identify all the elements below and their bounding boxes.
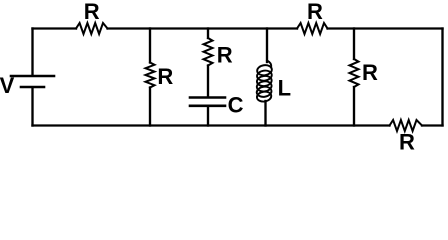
svg-text:R: R (307, 0, 323, 24)
resistor R5 (vertical, branch 5) (350, 59, 359, 87)
wire: top rail right segment (R2 to top-right corner) (328, 27, 443, 29)
wire: branch 4 lower stub (264, 101, 266, 126)
resistor R2 (top-right horizontal) (297, 23, 328, 34)
svg-text:R: R (157, 64, 173, 89)
wire: branch 5 upper stub (353, 29, 355, 60)
battery V: short plate (21, 86, 44, 89)
resistor R4 (vertical, branch 3) (204, 38, 213, 66)
wire: left edge lower (battery to bottom rail) (31, 88, 33, 125)
wire: left edge upper (top rail to battery) (31, 29, 33, 75)
wire: branch 5 lower stub (353, 87, 355, 126)
capacitor C: top plate (190, 96, 225, 99)
svg-text:R: R (84, 0, 100, 24)
wire: branch 3 middle stub (R4 to C) (207, 66, 209, 97)
wire: branch 2 upper stub (149, 29, 151, 63)
svg-text:R: R (362, 60, 378, 85)
svg-text:C: C (228, 93, 244, 118)
wire: right edge vertical (441, 29, 443, 126)
resistor R6 (bottom-right horizontal) (390, 120, 423, 131)
wire: branch 4 upper stub (266, 29, 268, 63)
svg-text:V: V (0, 73, 15, 98)
resistor R1 (top-left horizontal) (76, 23, 108, 34)
svg-text:L: L (278, 76, 291, 101)
svg-text:R: R (399, 130, 415, 153)
wire: branch 3 lower stub (C to bottom rail) (207, 107, 209, 125)
inductor L (coil, branch 4) (256, 61, 272, 103)
wire: bottom rail main segment (33, 124, 390, 126)
wire: branch 3 upper stub (207, 29, 209, 39)
wire: bottom rail right stub (corner to R6) (422, 124, 443, 126)
resistor R3 (vertical, branch 2) (146, 63, 155, 88)
capacitor C: bottom plate (190, 105, 225, 108)
battery V: long plate (11, 75, 54, 78)
wire: branch 2 lower stub (149, 88, 151, 126)
wire: top rail left segment (battery + to R1) (33, 27, 77, 29)
wire: top rail middle segment (R1 to R2 through nodes B,C,D) (108, 27, 298, 29)
svg-text:R: R (217, 42, 233, 67)
